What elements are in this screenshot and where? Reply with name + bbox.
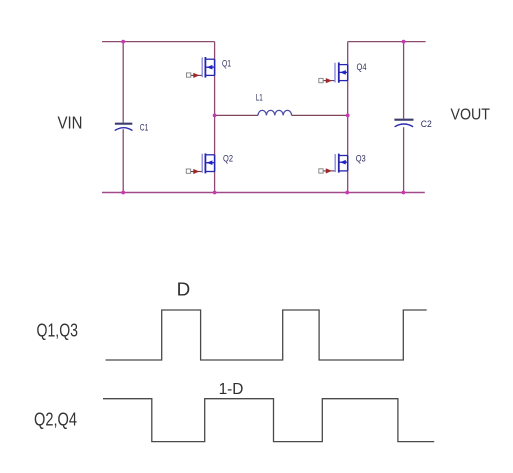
svg-text:C1: C1 (140, 122, 149, 133)
wire C2 branch upper (403, 42, 405, 119)
svg-text:D: D (177, 279, 191, 300)
junction switch node A (213, 114, 217, 118)
svg-text:Q1,Q3: Q1,Q3 (37, 320, 79, 341)
svg-text:VOUT: VOUT (451, 106, 491, 123)
svg-text:L1: L1 (256, 92, 263, 103)
svg-text:1-D: 1-D (219, 381, 244, 398)
junction Q2 source ground (213, 191, 217, 195)
transistor Q3 (319, 153, 366, 173)
transistor Q4 (319, 62, 367, 83)
junction C1 top (121, 40, 125, 44)
wire C1 branch lower (122, 129, 124, 192)
wire bottom ground rail (102, 192, 425, 194)
svg-text:Q4: Q4 (357, 62, 367, 73)
inductor L1 (256, 92, 292, 115)
waveform Q2,Q4 gate drive (103, 399, 434, 442)
transistor Q2 (186, 153, 233, 174)
wire C1 branch upper (122, 42, 124, 123)
svg-text:C2: C2 (421, 119, 432, 130)
junction node B (346, 114, 350, 118)
svg-text:Q2: Q2 (223, 154, 233, 165)
waveform Q1,Q3 gate drive (106, 310, 427, 360)
junction C1 bottom (121, 191, 125, 195)
junction C2 top (402, 40, 406, 44)
wire Q4/Q3 branch vertical (347, 42, 349, 193)
wire switch-node to L1 left (215, 114, 258, 116)
wire Q1/Q2 branch vertical (214, 42, 216, 193)
wire L1 right to node B (292, 114, 348, 116)
wire top-right rail VOUT+ (348, 41, 426, 43)
capacitor C2 (394, 119, 431, 130)
svg-text:Q1: Q1 (222, 59, 231, 70)
transistor Q1 (187, 57, 232, 78)
capacitor C1 (115, 122, 149, 133)
wire top-left rail VIN+ (102, 41, 215, 43)
wire C2 branch lower (403, 127, 405, 192)
junction Q3 source ground (345, 191, 349, 195)
junction C2 bottom (402, 191, 406, 195)
svg-text:Q2,Q4: Q2,Q4 (34, 408, 77, 429)
svg-text:VIN: VIN (58, 112, 83, 132)
svg-text:Q3: Q3 (356, 153, 366, 164)
